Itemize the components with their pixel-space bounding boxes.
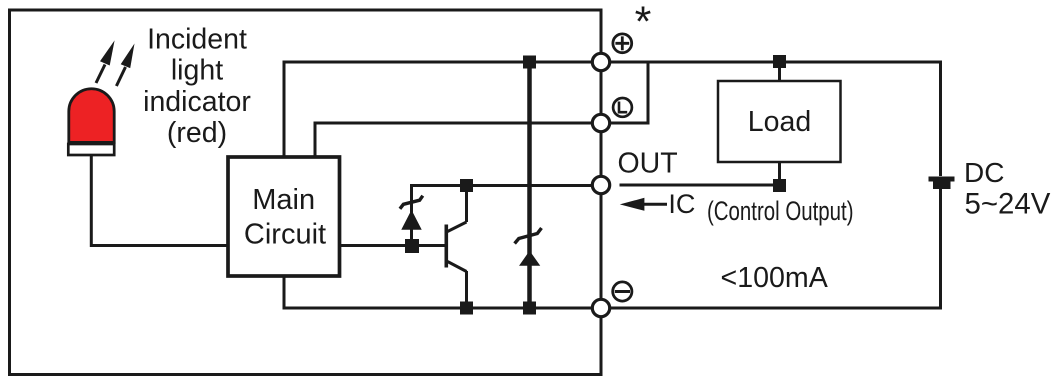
Load box — [718, 81, 841, 162]
svg-text:light: light — [171, 55, 223, 87]
wire OUT-right — [620, 184, 780, 187]
svg-text:Incident: Incident — [147, 24, 247, 56]
wire base — [339, 244, 446, 247]
svg-text:(Control Output): (Control Output) — [707, 196, 854, 226]
wire middle rail — [527, 62, 532, 308]
junction collector — [460, 179, 473, 192]
IC arrow — [620, 198, 667, 211]
transistor Q1 — [446, 186, 466, 309]
terminal plus — [592, 53, 609, 70]
wire OUT-left — [412, 186, 602, 244]
svg-text:indicator: indicator — [143, 86, 251, 118]
Main Circuit box U1 — [228, 157, 340, 276]
terminal minus — [592, 299, 609, 316]
svg-text:Load: Load — [748, 106, 811, 138]
plus symbol — [613, 34, 632, 53]
svg-text:<100mA: <100mA — [721, 262, 829, 294]
L symbol — [613, 98, 632, 117]
terminal L — [592, 114, 609, 131]
svg-text:DC: DC — [964, 157, 1004, 188]
wire L-feed — [315, 62, 648, 157]
svg-text:5~24V: 5~24V — [965, 188, 1051, 221]
junction zener anode / base — [405, 239, 419, 253]
DC source symbol — [929, 177, 955, 190]
svg-text:Circuit: Circuit — [244, 219, 326, 251]
wire bottom-rail — [284, 189, 941, 308]
wire plus-rail — [284, 62, 941, 176]
junction emitter bottom — [460, 302, 473, 315]
junction top of middle rail — [523, 56, 536, 69]
svg-text:(red): (red) — [167, 117, 227, 149]
incident light arrow 1 — [96, 40, 115, 83]
terminal OUT — [592, 176, 609, 193]
outer enclosure box — [10, 10, 602, 375]
incident light arrow 2 — [116, 44, 134, 87]
zener diode ZD1 — [400, 196, 423, 229]
junction load top — [773, 55, 786, 68]
junction middle rail bottom — [523, 302, 536, 315]
svg-text:Main: Main — [252, 184, 315, 216]
wire load top lead — [778, 60, 781, 81]
svg-text:OUT: OUT — [618, 148, 678, 180]
svg-text:IC: IC — [668, 189, 695, 219]
wire load bottom lead — [778, 162, 781, 187]
svg-text:*: * — [635, 0, 652, 46]
junction load bottom — [773, 179, 786, 192]
wire LED lead — [91, 154, 228, 246]
minus symbol — [613, 282, 632, 301]
LED indicator — [68, 89, 114, 155]
zener diode ZD2 — [515, 228, 542, 265]
